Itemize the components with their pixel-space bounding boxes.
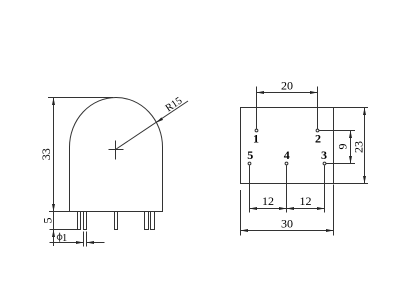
svg-text:4: 4 bbox=[284, 148, 290, 162]
svg-text:12: 12 bbox=[262, 194, 274, 208]
svg-text:1: 1 bbox=[62, 233, 67, 244]
svg-text:5: 5 bbox=[41, 218, 55, 224]
svg-text:R15: R15 bbox=[164, 95, 185, 114]
svg-text:23: 23 bbox=[352, 141, 366, 153]
svg-text:12: 12 bbox=[300, 194, 312, 208]
svg-text:9: 9 bbox=[336, 144, 350, 150]
svg-text:3: 3 bbox=[321, 148, 327, 162]
svg-text:5: 5 bbox=[247, 148, 253, 162]
svg-text:30: 30 bbox=[281, 217, 293, 231]
svg-text:20: 20 bbox=[281, 79, 293, 93]
svg-text:1: 1 bbox=[253, 132, 259, 146]
svg-text:33: 33 bbox=[39, 148, 53, 160]
svg-text:2: 2 bbox=[315, 132, 321, 146]
